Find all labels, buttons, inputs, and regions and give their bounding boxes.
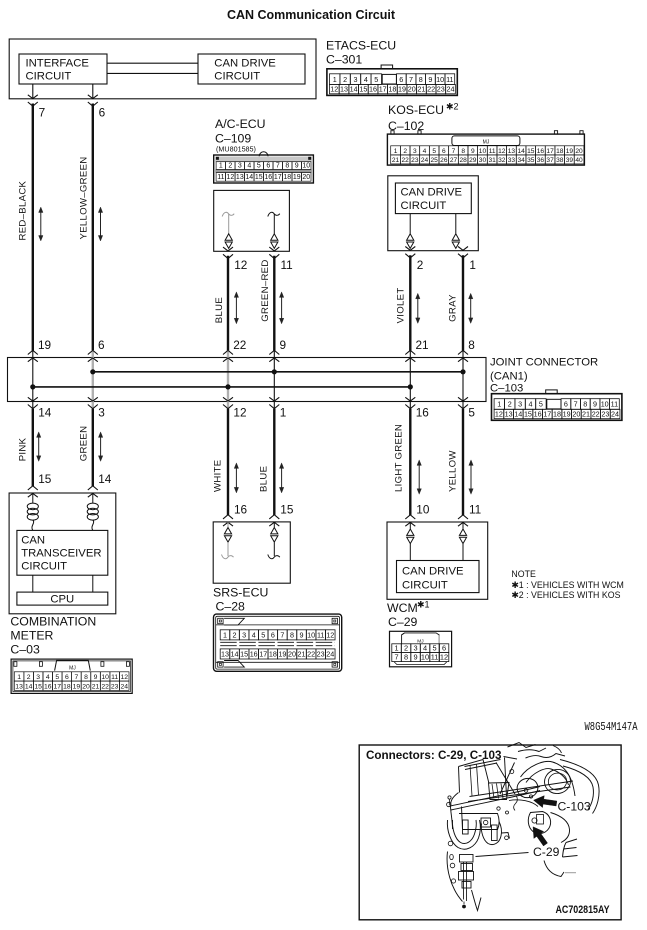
- terminal (A/C pin 11): [268, 212, 280, 216]
- crossing chevrons at joint connector top: [405, 350, 415, 354]
- svg-text:20: 20: [288, 650, 296, 659]
- wire transceiver to cpu (left): [32, 575, 34, 592]
- svg-text:12: 12: [440, 653, 448, 662]
- sketch: small wire squiggle near cluster: [514, 796, 518, 811]
- sketch: steering wheel inner rim: [563, 766, 593, 810]
- arrow to C-103: [534, 796, 557, 808]
- svg-text:GREEN–RED: GREEN–RED: [260, 259, 271, 321]
- interface circuit box: [19, 54, 107, 84]
- CAN bus upper line: [93, 371, 463, 373]
- svg-text:18: 18: [388, 85, 396, 94]
- svg-text:KOS-ECU: KOS-ECU: [388, 103, 444, 117]
- svg-text:COMBINATION: COMBINATION: [10, 615, 96, 629]
- sketch: curve below C-29 label: [544, 861, 564, 877]
- svg-text:16: 16: [369, 85, 377, 94]
- svg-text:9: 9: [471, 148, 475, 155]
- svg-text:W8G54M147A: W8G54M147A: [585, 720, 638, 734]
- sketch: top right short curve: [553, 746, 562, 754]
- signal arrow (VIOLET wire): [417, 298, 419, 319]
- wire joint to SRS-ECU: [227, 409, 229, 515]
- svg-text:23: 23: [317, 650, 325, 659]
- svg-text:15: 15: [34, 683, 42, 690]
- svg-text:4: 4: [252, 631, 256, 640]
- wire down to joint connector: [273, 256, 275, 351]
- svg-text:10: 10: [601, 400, 609, 409]
- svg-text:YELLOW–GREEN: YELLOW–GREEN: [78, 156, 89, 239]
- svg-text:20: 20: [82, 683, 90, 690]
- svg-text:22: 22: [592, 410, 600, 419]
- svg-text:5: 5: [261, 631, 265, 640]
- svg-text:16: 16: [534, 410, 542, 419]
- sketch: gauge ellipse left: [515, 776, 539, 799]
- svg-text:LIGHT GREEN: LIGHT GREEN: [394, 424, 405, 492]
- connector crossing at A/C-ECU bottom pin 12: [223, 254, 233, 258]
- svg-text:8: 8: [461, 148, 465, 155]
- svg-text:21: 21: [92, 683, 100, 690]
- svg-text:CAN DRIVE: CAN DRIVE: [401, 187, 463, 199]
- wire from ETACS pin 7 (thin inside box): [32, 84, 34, 99]
- svg-text:13: 13: [221, 650, 229, 659]
- crossing chevrons at joint connector bottom: [88, 405, 98, 409]
- svg-text:GREEN: GREEN: [79, 426, 90, 462]
- connector crossing at ETACS bottom, pin 7: [28, 102, 38, 106]
- svg-text:12: 12: [495, 410, 503, 419]
- svg-text:22: 22: [233, 338, 246, 352]
- svg-text:8: 8: [290, 631, 294, 640]
- svg-text:14: 14: [514, 410, 522, 419]
- svg-text:11: 11: [281, 258, 293, 272]
- sketch: X brace diagonal 1: [496, 763, 515, 795]
- svg-text:20: 20: [302, 174, 310, 181]
- svg-text:17: 17: [54, 683, 62, 690]
- crossing chevrons at joint connector bottom: [269, 405, 279, 409]
- connector C-109 pin diagram: [214, 152, 314, 183]
- wire joint to combination meter: [92, 409, 94, 486]
- svg-text:23: 23: [411, 157, 419, 164]
- svg-text:21: 21: [392, 157, 400, 164]
- svg-text:26: 26: [440, 157, 448, 164]
- svg-text:MJ: MJ: [69, 665, 76, 671]
- svg-text:✱1 : VEHICLES WITH WCM: ✱1 : VEHICLES WITH WCM: [511, 580, 623, 590]
- sketch: dash front edge curve 1: [451, 787, 541, 807]
- sketch: defroster hatch lines: [492, 784, 503, 799]
- svg-text:19: 19: [293, 174, 301, 181]
- svg-text:21: 21: [417, 85, 425, 94]
- svg-text:24: 24: [120, 683, 128, 690]
- wire down to joint connector: [462, 255, 464, 350]
- svg-text:9: 9: [295, 163, 299, 170]
- svg-text:14: 14: [98, 472, 112, 486]
- sketch: dash front edge curve 2: [451, 791, 540, 811]
- connector location illustration box: [359, 745, 621, 920]
- svg-text:11: 11: [217, 174, 224, 181]
- svg-text:1: 1: [497, 400, 501, 409]
- svg-text:15: 15: [255, 174, 263, 181]
- sketch: under-dash panel outline: [459, 814, 499, 830]
- svg-text:15: 15: [359, 85, 367, 94]
- svg-text:9: 9: [94, 674, 98, 681]
- svg-text:15: 15: [280, 503, 294, 517]
- svg-text:19: 19: [38, 338, 51, 352]
- svg-text:10: 10: [302, 163, 310, 170]
- svg-text:16: 16: [537, 148, 545, 155]
- svg-text:11: 11: [611, 400, 618, 409]
- svg-text:19: 19: [398, 85, 406, 94]
- wire from ETACS pin 6 (thin inside box): [92, 84, 94, 99]
- svg-text:35: 35: [527, 157, 535, 164]
- svg-text:(MU801585): (MU801585): [216, 145, 256, 154]
- svg-text:8: 8: [285, 163, 289, 170]
- cpu box: [17, 592, 108, 605]
- svg-text:4: 4: [247, 163, 251, 170]
- svg-text:11: 11: [317, 631, 324, 640]
- svg-text:7: 7: [39, 106, 46, 120]
- svg-text:40: 40: [575, 157, 583, 164]
- svg-text:GRAY: GRAY: [448, 294, 459, 322]
- terminal (WCM pin 11): [462, 522, 464, 529]
- coil on wire inside combination meter: [92, 493, 94, 503]
- svg-text:8: 8: [583, 400, 587, 409]
- svg-text:21: 21: [416, 338, 429, 352]
- sketch: C-29 connector small rect: [492, 825, 498, 841]
- terminal (WCM pin 10): [409, 522, 411, 529]
- svg-text:ETACS-ECU: ETACS-ECU: [326, 39, 396, 53]
- A/C-ECU box: [214, 190, 290, 251]
- signal arrow (YELLOW wire): [470, 464, 472, 489]
- svg-text:13: 13: [340, 85, 348, 94]
- svg-text:18: 18: [63, 683, 71, 690]
- svg-text:24: 24: [421, 157, 429, 164]
- connector crossing at ETACS bottom, pin 6: [88, 102, 98, 106]
- svg-text:12: 12: [330, 85, 338, 94]
- svg-text:17: 17: [543, 410, 551, 419]
- can drive circuit box (WCM): [397, 561, 480, 593]
- svg-text:6: 6: [65, 674, 69, 681]
- CAN bus lower line: [33, 386, 411, 388]
- connector C-03 pin diagram: [11, 659, 132, 693]
- svg-text:19: 19: [563, 410, 571, 419]
- terminal (KOS pin 1): [455, 214, 457, 234]
- sketch: A-pillar sail outline: [459, 760, 490, 793]
- sketch: defroster grille quad: [489, 783, 510, 800]
- sketch: cowl side outline: [451, 793, 459, 830]
- connector crossing at KOS-ECU bottom pin 2: [405, 254, 415, 258]
- svg-text:3: 3: [98, 406, 105, 420]
- sketch: dash top trim line 1: [470, 781, 574, 797]
- can transceiver circuit box: [17, 530, 108, 575]
- svg-text:AC702815AY: AC702815AY: [556, 904, 611, 916]
- sketch: bottom pointed flap: [472, 890, 482, 911]
- signal arrow (BLUE wire): [235, 296, 237, 319]
- svg-text:1: 1: [280, 406, 287, 420]
- svg-text:JOINT CONNECTOR: JOINT CONNECTOR: [490, 357, 598, 369]
- svg-text:6: 6: [271, 631, 275, 640]
- sketch: pillar trim lines: [465, 760, 501, 770]
- svg-text:2: 2: [27, 674, 31, 681]
- svg-text:C–29: C–29: [388, 615, 418, 629]
- svg-text:11: 11: [111, 674, 118, 681]
- svg-text:24: 24: [446, 85, 454, 94]
- crossing chevrons at combination meter top: [28, 486, 38, 490]
- sketch: gauge ellipse right: [542, 767, 572, 796]
- sketch: binnacle hood outer arc: [521, 761, 576, 796]
- svg-text:16: 16: [234, 503, 248, 517]
- svg-text:C–03: C–03: [10, 643, 40, 657]
- svg-text:12: 12: [326, 631, 334, 640]
- crossing chevrons at joint connector top: [88, 350, 98, 354]
- sketch: grommet stack: [448, 841, 453, 846]
- joint connector box: [8, 358, 487, 402]
- sketch: leader line from title: [504, 757, 518, 760]
- wire down to joint connector: [32, 104, 34, 351]
- svg-text:8: 8: [404, 653, 408, 662]
- svg-text:3: 3: [238, 163, 242, 170]
- svg-text:39: 39: [566, 157, 574, 164]
- crossing chevrons at WCM top: [405, 515, 415, 519]
- svg-text:TRANSCEIVER: TRANSCEIVER: [21, 548, 101, 560]
- wire joint to WCM: [462, 409, 464, 515]
- svg-text:15: 15: [240, 650, 248, 659]
- svg-text:6: 6: [442, 644, 446, 653]
- signal arrow (LIGHT GREEN wire): [418, 464, 420, 489]
- wire down to joint connector: [92, 104, 94, 351]
- sketch: bolt left of sail: [448, 796, 451, 799]
- svg-text:1: 1: [333, 75, 337, 84]
- svg-text:4: 4: [529, 400, 533, 409]
- sketch: screw left: [447, 802, 451, 806]
- svg-text:3: 3: [413, 644, 417, 653]
- svg-text:RED–BLACK: RED–BLACK: [17, 180, 28, 240]
- svg-text:1: 1: [219, 163, 223, 170]
- crossing chevrons at SRS-ECU top: [223, 515, 233, 519]
- svg-text:11: 11: [431, 653, 439, 662]
- svg-text:27: 27: [450, 157, 458, 164]
- svg-text:2: 2: [228, 163, 232, 170]
- svg-text:13: 13: [508, 148, 516, 155]
- svg-text:PINK: PINK: [18, 437, 29, 461]
- WCM box: [387, 522, 488, 599]
- svg-text:16: 16: [264, 174, 272, 181]
- svg-text:5: 5: [432, 644, 436, 653]
- connector crossing at KOS-ECU bottom pin 1: [458, 254, 468, 258]
- sketch: bottom drop dot: [463, 902, 465, 905]
- crossing chevrons at SRS-ECU top: [269, 515, 279, 519]
- svg-text:CPU: CPU: [50, 594, 74, 606]
- terminal (KOS pin 2): [409, 214, 411, 234]
- svg-text:20: 20: [408, 85, 416, 94]
- svg-text:6: 6: [399, 75, 403, 84]
- signal arrow (GRAY wire): [470, 298, 472, 319]
- sketch: gauge ellipse right inner: [547, 771, 568, 791]
- svg-text:9: 9: [300, 631, 304, 640]
- crossing chevrons at joint connector bottom: [223, 405, 233, 409]
- svg-text:17: 17: [274, 174, 282, 181]
- svg-text:A/C-ECU: A/C-ECU: [215, 117, 266, 131]
- svg-text:CIRCUIT: CIRCUIT: [26, 71, 72, 83]
- sketch: cowl side line 2: [462, 807, 463, 830]
- crossing chevrons at joint connector top: [269, 350, 279, 354]
- sketch: binnacle hood inner arc: [526, 769, 569, 785]
- leader line to C-29 label: [476, 853, 529, 857]
- wire through joint connector at x=92.8: [92, 350, 94, 409]
- svg-text:37: 37: [546, 157, 554, 164]
- sketch: right blob loop: [481, 822, 501, 845]
- svg-text:12: 12: [234, 258, 247, 272]
- svg-text:7: 7: [394, 653, 398, 662]
- svg-text:7: 7: [574, 400, 578, 409]
- svg-text:17: 17: [259, 650, 267, 659]
- crossing chevrons at joint connector bottom: [405, 405, 415, 409]
- crossing chevrons at WCM top: [458, 515, 468, 519]
- svg-text:20: 20: [575, 148, 583, 155]
- svg-text:C–109: C–109: [215, 132, 251, 146]
- svg-text:22: 22: [307, 650, 315, 659]
- svg-text:CIRCUIT: CIRCUIT: [401, 200, 447, 212]
- svg-text:6: 6: [99, 106, 106, 120]
- svg-text:33: 33: [508, 157, 516, 164]
- svg-text:7: 7: [276, 163, 280, 170]
- svg-text:20: 20: [572, 410, 580, 419]
- svg-text:6: 6: [266, 163, 270, 170]
- svg-text:WHITE: WHITE: [213, 460, 224, 492]
- svg-text:3: 3: [36, 674, 40, 681]
- svg-text:12: 12: [233, 406, 246, 420]
- svg-text:23: 23: [111, 683, 119, 690]
- sketch: screw mid: [524, 789, 528, 793]
- wire through joint connector at x=228: [227, 350, 229, 409]
- svg-text:C-103: C-103: [558, 800, 591, 814]
- svg-text:18: 18: [556, 148, 564, 155]
- svg-text:14: 14: [25, 683, 33, 690]
- svg-text:18: 18: [283, 174, 291, 181]
- connector C-28 pin diagram: [214, 614, 342, 671]
- svg-text:5: 5: [468, 406, 475, 420]
- terminal (SRS pin 15): [273, 522, 275, 527]
- sketch: console loop outer: [447, 820, 480, 849]
- connector C-301 pin diagram: [327, 65, 457, 95]
- svg-text:36: 36: [537, 157, 545, 164]
- svg-text:19: 19: [566, 148, 574, 155]
- svg-text:1: 1: [17, 674, 21, 681]
- svg-text:1: 1: [223, 631, 227, 640]
- svg-text:30: 30: [479, 157, 487, 164]
- svg-text:C–103: C–103: [490, 383, 523, 395]
- connector C-102 pin diagram: [387, 131, 584, 165]
- can drive circuit box (ETACS): [198, 54, 305, 84]
- svg-text:24: 24: [326, 650, 334, 659]
- svg-text:12: 12: [498, 148, 506, 155]
- svg-text:5: 5: [539, 400, 543, 409]
- svg-text:CAN DRIVE: CAN DRIVE: [402, 566, 464, 578]
- svg-text:24: 24: [611, 410, 619, 419]
- svg-text:WCM: WCM: [387, 601, 418, 615]
- svg-text:✱2 : VEHICLES WITH KOS: ✱2 : VEHICLES WITH KOS: [511, 590, 620, 600]
- sketch: gray short line: [565, 872, 576, 874]
- svg-text:✱2: ✱2: [446, 102, 459, 112]
- svg-text:CIRCUIT: CIRCUIT: [21, 561, 67, 573]
- KOS-ECU box: [388, 176, 479, 251]
- sketch: steering wheel outer rim: [560, 760, 599, 814]
- svg-text:15: 15: [524, 410, 532, 419]
- svg-text:28: 28: [459, 157, 467, 164]
- svg-text:6: 6: [442, 148, 446, 155]
- sketch: top cowl squiggle 3: [526, 754, 566, 759]
- svg-text:23: 23: [437, 85, 445, 94]
- svg-text:CAN Communication Circuit: CAN Communication Circuit: [227, 8, 396, 22]
- SRS-ECU box: [213, 522, 290, 583]
- svg-text:10: 10: [421, 653, 429, 662]
- svg-text:9: 9: [593, 400, 597, 409]
- svg-text:11: 11: [446, 75, 453, 84]
- sketch: top cowl squiggle 1: [508, 743, 536, 748]
- svg-text:6: 6: [98, 338, 105, 352]
- svg-text:8: 8: [84, 674, 88, 681]
- svg-text:3: 3: [354, 75, 358, 84]
- svg-text:7: 7: [280, 631, 284, 640]
- svg-text:CAN DRIVE: CAN DRIVE: [214, 58, 276, 70]
- sketch: top cowl squiggle 2: [518, 748, 546, 752]
- sketch: bracket arm right: [502, 833, 510, 839]
- sketch: right console curve down: [551, 813, 570, 843]
- svg-text:C-29: C-29: [533, 845, 560, 859]
- svg-text:4: 4: [364, 75, 368, 84]
- svg-text:8: 8: [468, 338, 475, 352]
- wire joint to SRS-ECU: [273, 409, 275, 515]
- wire through joint connector at x=32.8: [32, 351, 34, 409]
- svg-text:14: 14: [350, 85, 358, 94]
- svg-text:SRS-ECU: SRS-ECU: [213, 586, 268, 600]
- svg-text:16: 16: [44, 683, 52, 690]
- svg-text:NOTE: NOTE: [511, 569, 536, 579]
- svg-text:22: 22: [101, 683, 109, 690]
- sketch: harness connector blocks: [460, 855, 474, 863]
- can drive circuit box (KOS): [395, 183, 471, 214]
- sketch: cluster lower trim: [509, 800, 538, 807]
- sketch: E mark: [563, 839, 578, 857]
- arrow to C-29: [533, 827, 548, 846]
- crossing chevrons at combination meter top: [88, 486, 98, 490]
- svg-text:7: 7: [409, 75, 413, 84]
- svg-text:19: 19: [73, 683, 81, 690]
- svg-text:2: 2: [343, 75, 347, 84]
- wire through joint connector at x=410.3: [409, 351, 411, 409]
- svg-text:21: 21: [298, 650, 306, 659]
- sketch: dash brace short lines: [470, 764, 479, 796]
- svg-text:16: 16: [250, 650, 258, 659]
- signal arrow (GREEN wire): [100, 436, 102, 456]
- svg-text:10: 10: [479, 148, 487, 155]
- svg-text:10: 10: [101, 674, 109, 681]
- svg-text:BLUE: BLUE: [214, 297, 225, 323]
- sketch: console loop inner: [452, 820, 476, 844]
- wire joint to combination meter: [32, 409, 34, 486]
- svg-text:17: 17: [379, 85, 387, 94]
- wire transceiver to cpu (right): [92, 575, 94, 592]
- bus junction dots: [30, 384, 35, 389]
- svg-text:14: 14: [38, 406, 52, 420]
- svg-text:13: 13: [505, 410, 513, 419]
- svg-text:5: 5: [432, 148, 436, 155]
- svg-text:14: 14: [231, 650, 239, 659]
- svg-text:2: 2: [404, 644, 408, 653]
- svg-text:10: 10: [416, 503, 430, 517]
- sketch: vertical brace line: [505, 758, 507, 797]
- connector C-29 pin diagram: [390, 631, 452, 667]
- svg-text:C–28: C–28: [216, 600, 246, 614]
- terminal (SRS pin 16): [227, 522, 229, 527]
- svg-text:MJ: MJ: [483, 140, 490, 146]
- svg-text:5: 5: [257, 163, 261, 170]
